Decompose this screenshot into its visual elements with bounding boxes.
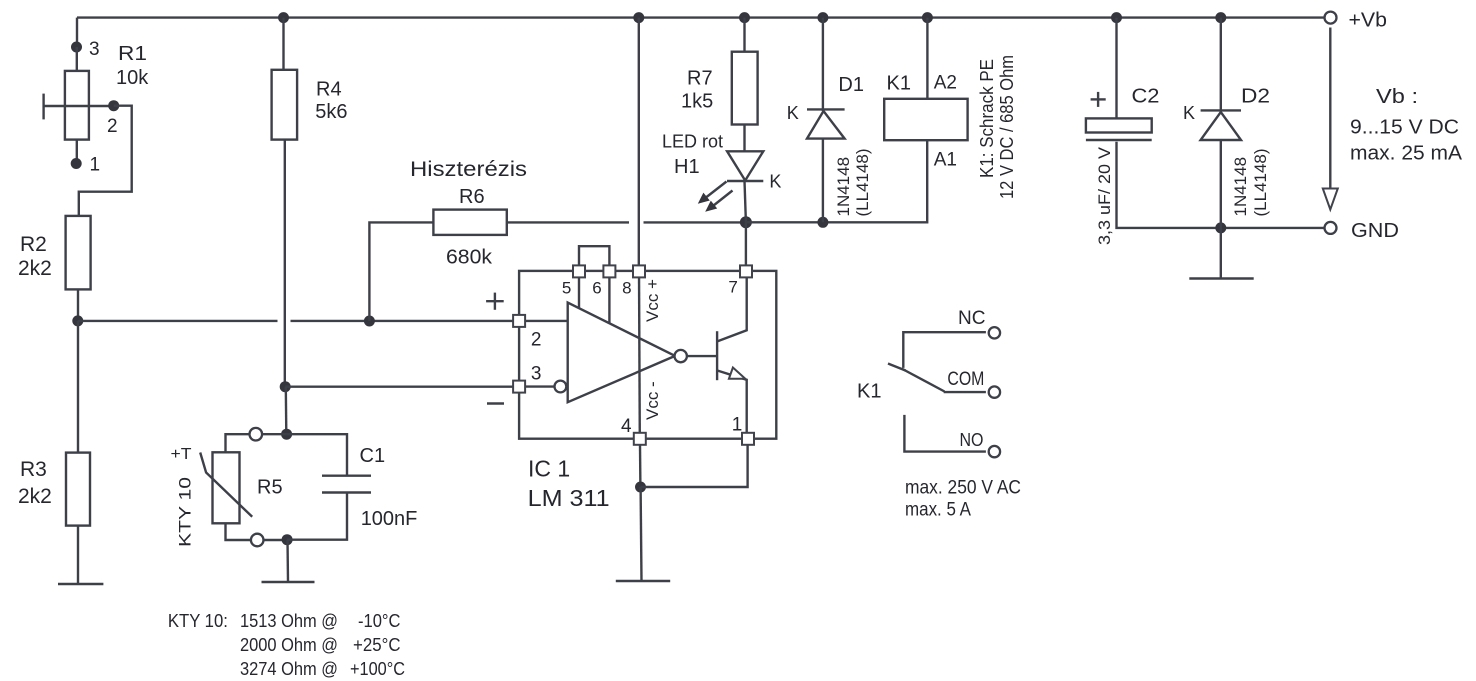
sensor R5 diagonal (200, 453, 252, 517)
svg-text:K: K (1183, 103, 1195, 123)
contact pivot tick (888, 364, 906, 371)
wire rail to K1 coil (926, 18, 928, 99)
node junction R5/C1 top (281, 429, 292, 440)
plus sign (noninverting) (486, 300, 504, 302)
svg-text:3: 3 (89, 39, 100, 60)
wire pin6 stub into triangle (608, 277, 610, 323)
terminal +Vb (1325, 12, 1337, 24)
wire Vcc+ pin8 from rail through box to pin4 (638, 18, 640, 271)
node junction rail/K1 (922, 12, 933, 23)
wire inverting input line (to pin3) (285, 386, 514, 388)
wire bottom junction to ground (286, 540, 289, 582)
svg-text:Hiszterézis: Hiszterézis (410, 158, 527, 181)
svg-text:4: 4 (621, 416, 632, 437)
wire C1 bottom branch (287, 493, 347, 540)
svg-text:680k: 680k (446, 247, 493, 269)
svg-text:(LL4148): (LL4148) (1251, 148, 1270, 216)
wire D1 to output wire (822, 139, 824, 223)
pin 4 (634, 433, 646, 445)
wire pin7 to output node (745, 222, 747, 265)
svg-text:2k2: 2k2 (18, 485, 52, 508)
svg-text:Vcc +: Vcc + (643, 279, 662, 322)
C2 plus sign (1091, 98, 1106, 100)
resistor R2 (66, 216, 91, 290)
node junction rail/D1 (817, 12, 828, 23)
svg-text:R7: R7 (687, 67, 713, 89)
svg-text:KTY 10: KTY 10 (176, 477, 195, 547)
svg-text:-10°C: -10°C (358, 611, 401, 631)
node junction rail/R7 (739, 12, 750, 23)
diode D2 triangle (1201, 112, 1241, 140)
svg-text:R1: R1 (118, 43, 147, 65)
pin 6 (603, 265, 615, 277)
pin 1 (742, 433, 754, 445)
svg-text:Vb :: Vb : (1376, 86, 1418, 108)
resistor R4 (272, 70, 298, 140)
wire output circle to transistor base (687, 355, 717, 357)
svg-text:R3: R3 (20, 458, 47, 481)
node junction D1/output wire (817, 217, 828, 228)
wire GND line to GND terminal (1221, 227, 1325, 229)
node R1 pin 2 (wiper) (108, 100, 119, 111)
wire rail to C2 (1115, 18, 1117, 119)
label Vcc+ (643, 279, 662, 322)
terminal GND (1325, 222, 1337, 234)
wire C2 to GND line (1117, 142, 1221, 228)
svg-text:max. 25 mA: max. 25 mA (1350, 143, 1463, 165)
svg-text:+25°C: +25°C (353, 635, 401, 655)
pin 8 (633, 265, 645, 277)
terminal COM (989, 386, 1000, 397)
node junction feedback/plus-input (364, 316, 375, 327)
svg-text:10k: 10k (116, 67, 149, 89)
svg-text:D2: D2 (1241, 86, 1270, 108)
wire output node to D1 and K1 (746, 140, 927, 222)
output circle (675, 350, 687, 362)
svg-text:max. 250 V AC: max. 250 V AC (905, 478, 1021, 499)
svg-text:Vcc -: Vcc - (643, 381, 662, 420)
wire R6 output side to output node (507, 221, 629, 223)
wire rail to R4 (282, 18, 284, 70)
wire plus input inside box (514, 320, 568, 322)
minus sign (inverting) (487, 402, 504, 404)
capacitor C1 (322, 475, 371, 477)
relay K1 coil box (884, 99, 967, 140)
transistor base bar (716, 331, 718, 380)
svg-text:A1: A1 (934, 150, 957, 171)
svg-text:K1: Schrack PE: K1: Schrack PE (977, 59, 997, 178)
svg-text:LM 311: LM 311 (528, 485, 610, 511)
transistor emitter arrowhead (open) (729, 368, 745, 379)
svg-text:1k5: 1k5 (681, 91, 713, 113)
wire top to R5 connector (262, 433, 286, 435)
wire bracket pins 5-6 (579, 246, 609, 266)
svg-text:GND: GND (1351, 220, 1399, 242)
capacitor C2 plus plate (box) (1086, 118, 1152, 132)
svg-text:1: 1 (90, 155, 101, 176)
svg-text:COM: COM (947, 369, 984, 390)
svg-text:D1: D1 (838, 74, 864, 96)
diode D2 cathode bar (1201, 109, 1241, 111)
op-amp comparator triangle (568, 303, 675, 403)
svg-text:A2: A2 (934, 73, 957, 94)
svg-text:(LL4148): (LL4148) (853, 148, 872, 216)
wire pin3 to R1 body (76, 47, 78, 71)
wire R5 body to bottom connector (226, 523, 251, 540)
sensor R5 KTY10 body (213, 452, 240, 523)
svg-text:2: 2 (107, 116, 118, 137)
pin 2 (513, 315, 525, 327)
svg-text:+100°C: +100°C (350, 659, 405, 679)
wire connector to bottom junction (264, 539, 288, 541)
wire divider node to R3 (77, 321, 79, 453)
transistor emitter (717, 371, 746, 433)
node R1 pin 3 (71, 42, 82, 53)
ground (below D2) (1189, 277, 1253, 279)
svg-text:R4: R4 (316, 78, 342, 100)
R1 wiper end bar (42, 94, 44, 120)
node output junction (pin7/LED/D1) (740, 216, 752, 228)
svg-text:5: 5 (562, 279, 571, 298)
capacitor C2 bottom plate (1086, 139, 1152, 141)
wire hysteresis feedback vertical (369, 222, 433, 321)
node junction R5/C1 bottom (282, 534, 293, 545)
wire rail to R7 (743, 18, 745, 52)
transistor collector (717, 278, 746, 342)
wire +Vb top rail (77, 16, 1324, 18)
contact NO wire (904, 415, 986, 452)
wire R3 to ground (77, 526, 79, 584)
wire rail to R1 pin3 (76, 18, 78, 47)
svg-text:NO: NO (960, 430, 984, 450)
svg-text:3274 Ohm @: 3274 Ohm @ (240, 659, 338, 679)
svg-text:K: K (769, 172, 781, 192)
node junction pin4/pin1 (635, 482, 646, 493)
connector circle R5 top (250, 428, 263, 441)
wire LED cathode to output node (745, 181, 746, 222)
svg-text:H1: H1 (674, 156, 700, 178)
diode D1 triangle (807, 111, 845, 139)
LED H1 triangle (727, 151, 763, 180)
pin 7 (740, 265, 752, 277)
terminal NO (989, 446, 1000, 457)
Vb arrow shaft (1329, 28, 1331, 189)
node junction rail/R4 (278, 12, 289, 23)
svg-text:K: K (787, 103, 799, 123)
wire D2 through GND line to ground (1220, 140, 1222, 279)
ground (below R5/C1) (262, 581, 315, 583)
svg-text:R6: R6 (459, 186, 485, 208)
wire sensor node down to R5/C1 (285, 387, 288, 435)
svg-text:2k2: 2k2 (18, 257, 52, 280)
wire R7 to LED (743, 125, 745, 152)
wire R1 wiper to R2 top (79, 106, 132, 216)
svg-text:2: 2 (531, 330, 542, 351)
op-amp IC1 box (519, 271, 776, 439)
svg-text:3,3 uF/ 20 V: 3,3 uF/ 20 V (1095, 146, 1114, 245)
connector circle R5 bottom (251, 534, 264, 547)
contact NC wire (903, 332, 986, 368)
node divider junction R2/R3 (72, 315, 83, 326)
wire C1 top branch (287, 434, 347, 476)
LED light arrows (704, 182, 727, 200)
wire noninverting input line (divider to pin2) (78, 320, 278, 322)
svg-text:K1: K1 (887, 73, 911, 95)
node junction D2/GND line (1215, 222, 1226, 233)
contact COM wire (944, 391, 986, 393)
svg-text:2000 Ohm @: 2000 Ohm @ (240, 635, 338, 655)
resistor R7 (732, 52, 758, 125)
svg-text:+T: +T (171, 446, 192, 463)
svg-text:R2: R2 (20, 233, 47, 256)
node junction rail/C2 (1111, 12, 1122, 23)
node junction rail/pin8 (633, 12, 644, 23)
svg-text:IC 1: IC 1 (528, 456, 570, 482)
svg-text:1513 Ohm @: 1513 Ohm @ (240, 611, 338, 631)
wire pin5 stub into triangle (578, 277, 580, 308)
svg-text:KTY 10:: KTY 10: (168, 611, 228, 631)
wire R1 body to pin1 (76, 140, 78, 163)
R1 wiper line (44, 105, 114, 107)
svg-text:5k6: 5k6 (315, 101, 347, 123)
wire R2 to divider node (77, 289, 79, 321)
inverting input circle (555, 381, 567, 393)
LED H1 cathode bar (727, 180, 763, 182)
ground (below IC) (616, 580, 670, 582)
diode D1 cathode bar (807, 108, 845, 110)
pin 3 (513, 381, 525, 393)
wire rail to D2 (1220, 18, 1222, 112)
svg-text:1N4148: 1N4148 (834, 157, 853, 217)
svg-text:max. 5 A: max. 5 A (905, 500, 971, 521)
svg-text:100nF: 100nF (361, 508, 418, 530)
svg-text:7: 7 (728, 278, 737, 297)
resistor R1 (trimmer body) (65, 71, 89, 140)
wire minus input inside box (514, 385, 555, 387)
resistor R3 (66, 453, 90, 526)
svg-text:6: 6 (592, 279, 601, 298)
contact arm (902, 369, 945, 392)
wire rail to D1 (822, 18, 824, 111)
svg-text:1: 1 (732, 415, 743, 436)
label Vcc- (643, 381, 662, 420)
node junction rail/D2 (1215, 12, 1226, 23)
svg-text:K1: K1 (857, 381, 881, 403)
wire pin4 down (639, 445, 642, 487)
terminal NC (989, 327, 1000, 338)
svg-text:12 V DC / 685 Ohm: 12 V DC / 685 Ohm (997, 55, 1017, 199)
svg-text:R5: R5 (257, 477, 283, 499)
svg-text:8: 8 (622, 279, 631, 298)
svg-text:NC: NC (958, 308, 985, 329)
node junction R4/minus-input (280, 381, 291, 392)
ground (below R3) (58, 583, 103, 585)
pin 5 (573, 265, 585, 277)
svg-text:C2: C2 (1132, 86, 1160, 108)
svg-text:LED rot: LED rot (662, 132, 723, 152)
svg-text:+Vb: +Vb (1349, 10, 1388, 32)
svg-text:1N4148: 1N4148 (1231, 157, 1250, 217)
Vb arrow open head (1323, 189, 1338, 210)
wire connector to R5 body (226, 434, 250, 452)
wire pin1 to pin4 junction (641, 445, 748, 487)
svg-text:C1: C1 (360, 445, 386, 467)
svg-text:3: 3 (531, 364, 542, 385)
node R1 pin 1 (71, 158, 82, 169)
resistor R6 (433, 210, 506, 235)
wire junction to ground (639, 487, 642, 581)
wire R4 to sensor node (284, 140, 286, 387)
svg-text:9...15 V DC: 9...15 V DC (1350, 117, 1459, 139)
